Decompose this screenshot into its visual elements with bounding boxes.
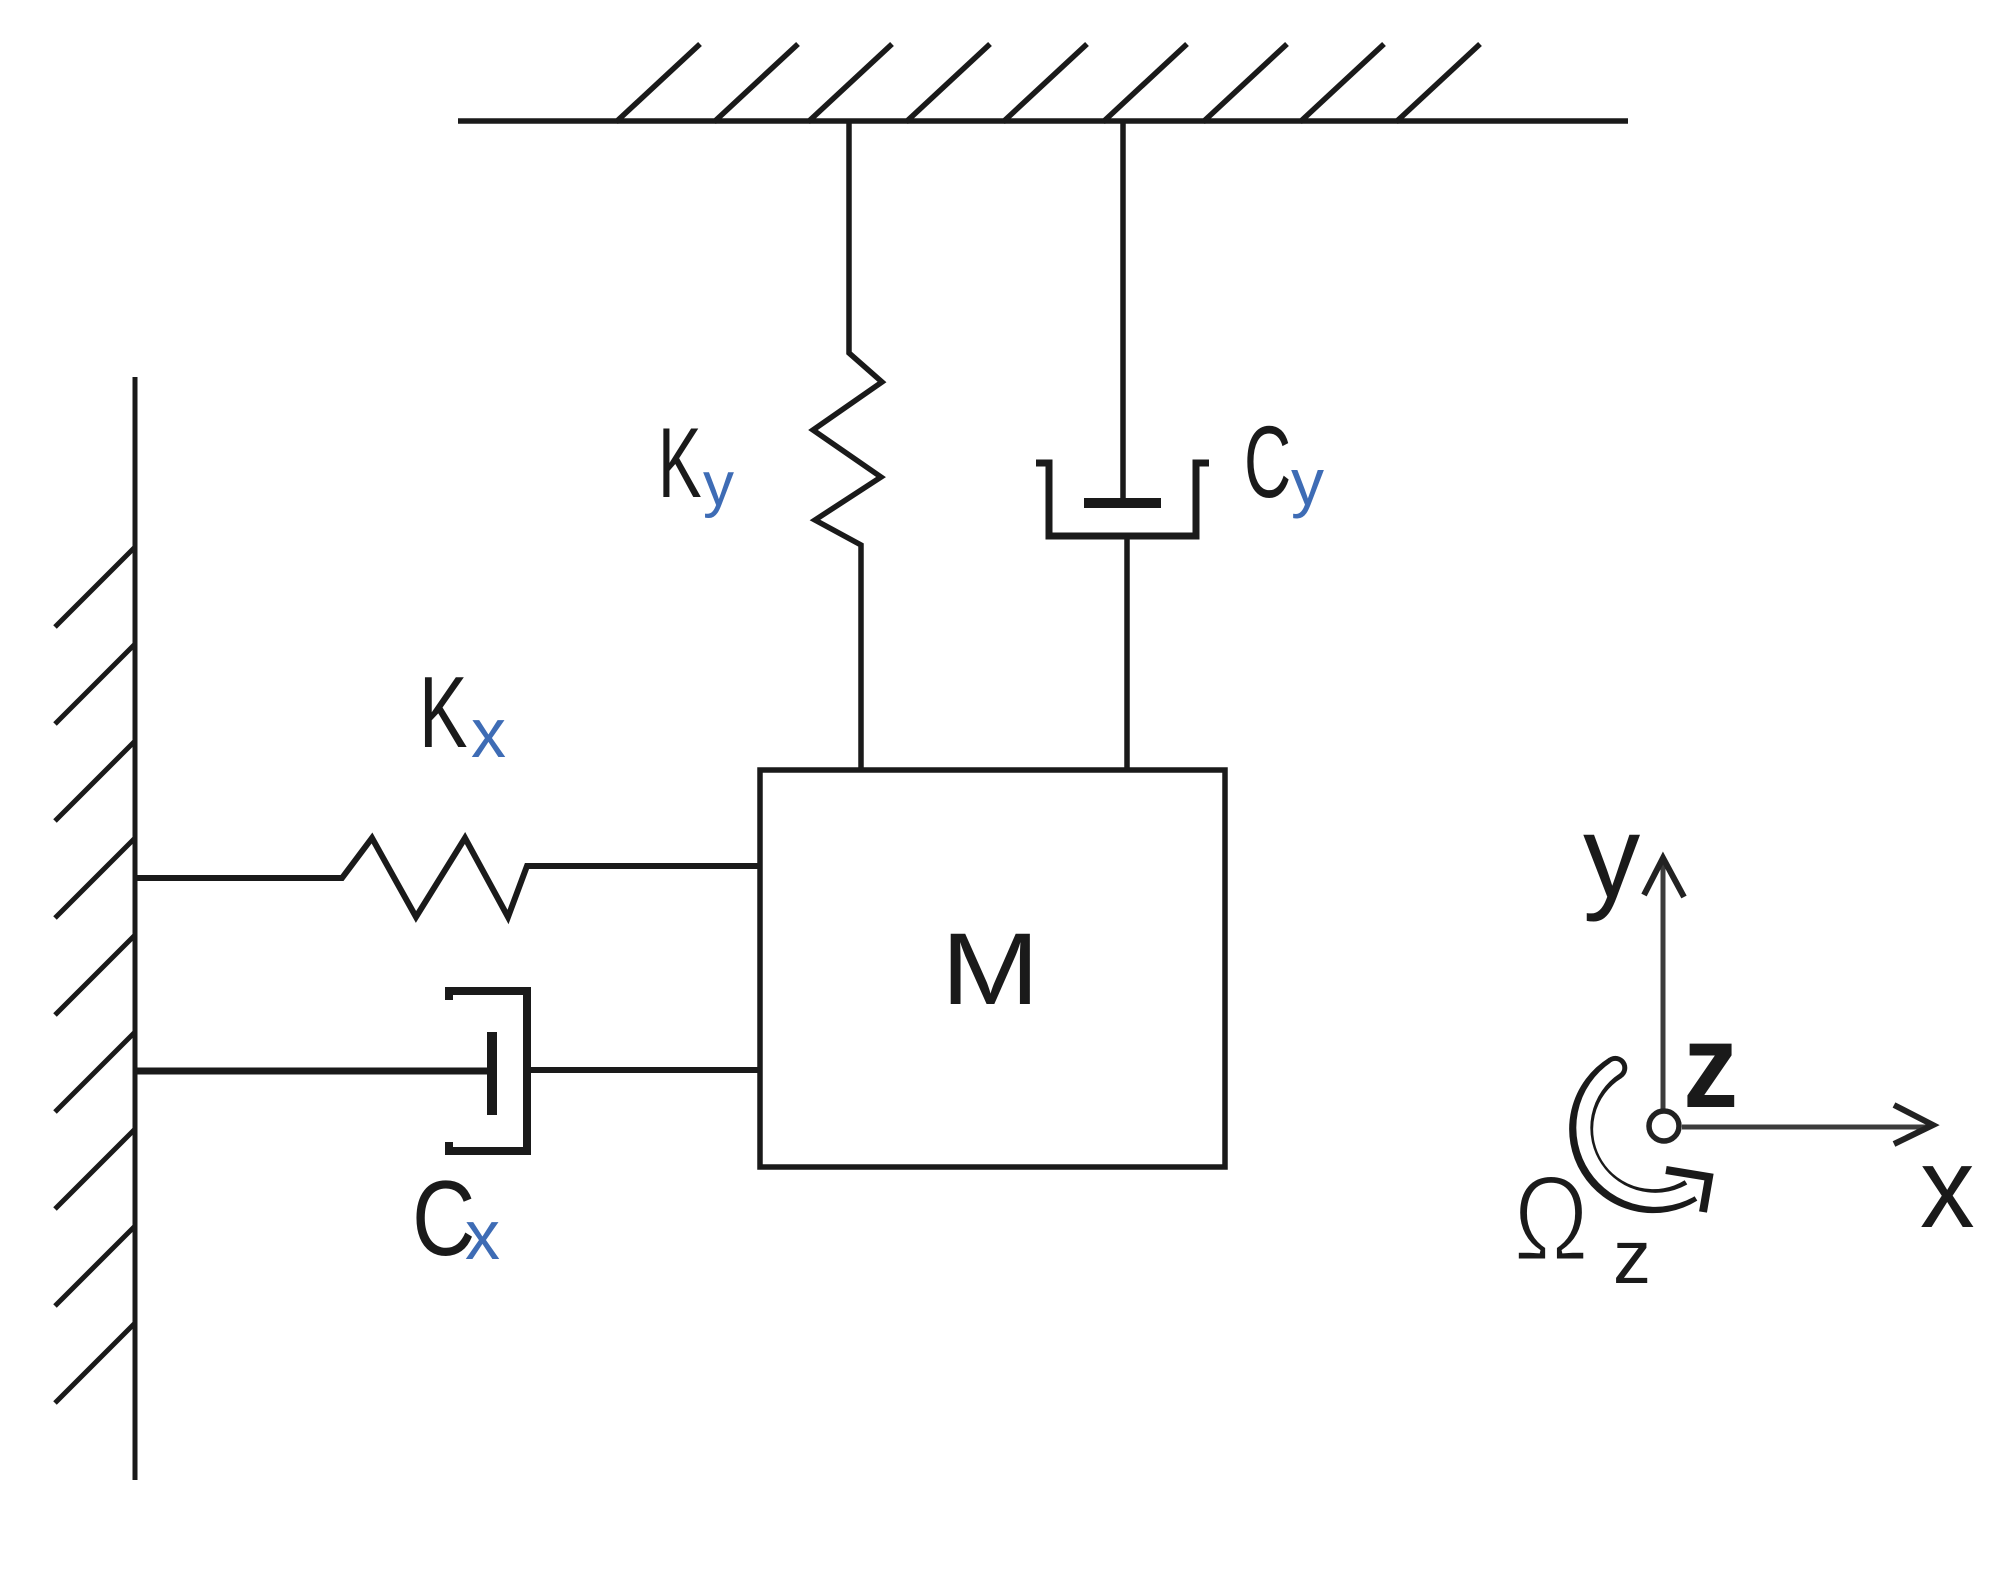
svg-text:y: y xyxy=(1583,790,1640,922)
label Cx xyxy=(412,1158,500,1278)
damper Cy rod to mass xyxy=(1124,536,1130,772)
y axis xyxy=(1583,790,1684,1110)
damper Cx piston plate xyxy=(487,1032,497,1115)
label Omega xyxy=(1513,1149,1651,1300)
ceiling hatch marks xyxy=(616,44,1480,122)
damper Cy xyxy=(1036,121,1209,772)
svg-text:y: y xyxy=(1291,445,1324,519)
damper Cy rod from ceiling xyxy=(1120,121,1126,504)
svg-text:x: x xyxy=(465,1196,500,1274)
origin circle (z axis out of plane) xyxy=(1649,1000,1738,1141)
damper Cy piston plate xyxy=(1084,498,1161,508)
svg-text:C: C xyxy=(1244,405,1291,519)
spring Ky xyxy=(813,121,882,772)
damper Cx xyxy=(135,991,762,1151)
damper Cy cylinder cup xyxy=(1036,463,1209,536)
mass M block xyxy=(760,770,1225,1167)
svg-text:x: x xyxy=(471,694,506,772)
svg-text:y: y xyxy=(703,450,734,519)
damper Cx rod from wall xyxy=(135,1068,492,1075)
damper Cx cylinder cup xyxy=(449,991,527,1151)
x axis xyxy=(1682,1105,1975,1252)
svg-text:x: x xyxy=(1920,1122,1975,1251)
label Kx xyxy=(419,655,506,772)
spring Kx xyxy=(135,838,762,917)
rotation arrowhead xyxy=(1666,1170,1709,1212)
svg-text:K: K xyxy=(658,407,702,518)
label Ky xyxy=(658,407,734,519)
svg-text:z: z xyxy=(1683,1000,1738,1133)
svg-text:K: K xyxy=(419,655,468,769)
ceiling ground line xyxy=(458,118,1628,124)
label Cy xyxy=(1244,405,1324,519)
svg-text:z: z xyxy=(1613,1215,1651,1300)
left wall ground line xyxy=(133,377,138,1480)
left wall hatch marks xyxy=(55,547,135,1403)
svg-text:M: M xyxy=(941,913,1040,1027)
rotation arrow Omega_z xyxy=(1581,1056,1709,1212)
damper Cx rod to mass xyxy=(527,1067,762,1073)
svg-text:Ω: Ω xyxy=(1513,1149,1589,1286)
